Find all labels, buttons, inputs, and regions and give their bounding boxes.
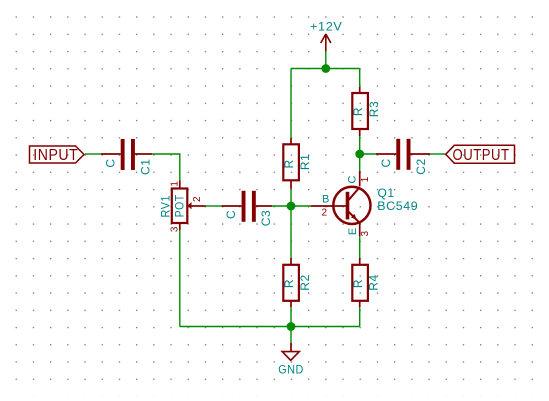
junction node +12V bus <box>321 64 330 73</box>
pin RV1 1 <box>179 181 181 189</box>
svg-text:R: R <box>282 279 296 288</box>
transistor Q1 <box>333 187 370 224</box>
svg-text:POT: POT <box>172 194 186 217</box>
svg-text:R: R <box>351 279 365 288</box>
global label INPUT <box>30 146 85 164</box>
svg-text:B: B <box>322 193 329 205</box>
pin C2 left <box>376 153 396 155</box>
svg-text:RV1: RV1 <box>159 195 173 218</box>
pin C1 right <box>135 153 152 155</box>
svg-text:C: C <box>104 158 118 167</box>
pin R3 top <box>359 87 361 93</box>
svg-text:C: C <box>379 158 393 167</box>
wire C2 to OUTPUT <box>430 153 446 155</box>
pin R1 top <box>290 138 292 144</box>
junction node bottom bus <box>287 322 296 331</box>
resistor R4 <box>352 265 368 301</box>
wire top bus <box>291 68 360 70</box>
svg-text:C1: C1 <box>138 158 152 175</box>
wire R3 bottom to C2 node <box>359 136 361 154</box>
ground symbol <box>282 352 299 361</box>
pin Q1 collector <box>359 171 361 187</box>
wire emitter to R4 <box>359 236 361 258</box>
wire R4 bottom <box>359 307 361 327</box>
resistor R1 <box>283 144 299 180</box>
svg-text:C3: C3 <box>259 210 273 227</box>
wire C1 to corner <box>152 154 180 181</box>
svg-text:3: 3 <box>360 230 371 236</box>
wire R2 bottom to bus <box>290 307 292 327</box>
wire top bus to R1 <box>290 69 292 139</box>
capacitor C1 <box>121 139 135 170</box>
wire C2 node to C2 <box>360 153 376 155</box>
svg-text:R1: R1 <box>298 154 312 171</box>
pin RV1 3 <box>179 223 181 230</box>
svg-text:INPUT: INPUT <box>33 147 78 164</box>
wire RV1 bottom leg <box>179 230 181 327</box>
svg-text:C: C <box>224 210 238 219</box>
svg-text:3: 3 <box>170 226 181 232</box>
resistor R2 <box>283 265 299 301</box>
pin R3 bottom <box>359 129 361 136</box>
svg-text:E: E <box>347 228 359 235</box>
pin R4 bottom <box>359 301 361 307</box>
resistor R3 <box>352 93 368 129</box>
svg-text:C2: C2 <box>414 158 428 175</box>
svg-text:GND: GND <box>278 362 304 376</box>
pin C3 right <box>256 205 272 207</box>
pin C3 left <box>222 205 242 207</box>
pin Q1 emitter <box>359 223 361 236</box>
pin C2 right <box>411 153 431 155</box>
wire GND drop <box>290 327 292 344</box>
capacitor C3 <box>242 191 256 222</box>
wire bottom bus <box>180 326 360 328</box>
wire C3 to junction <box>272 205 291 207</box>
wire junction to base <box>291 205 311 207</box>
pin R4 top <box>359 258 361 265</box>
svg-text:BC549: BC549 <box>377 199 418 213</box>
svg-text:R3: R3 <box>367 101 381 118</box>
wire top bus to R3 <box>359 69 361 88</box>
wire +12V stem <box>325 51 327 69</box>
svg-text:1: 1 <box>360 176 371 182</box>
svg-text:1: 1 <box>170 181 181 187</box>
svg-text:Q1: Q1 <box>378 186 395 200</box>
pin GND stub <box>290 343 292 352</box>
pin R2 bottom <box>290 301 292 307</box>
capacitor C2 <box>396 139 410 170</box>
svg-text:C: C <box>347 175 359 183</box>
pin C1 left <box>101 153 121 155</box>
junction node collector/R3/C2 <box>355 150 364 159</box>
svg-text:2: 2 <box>322 208 328 219</box>
svg-text:2: 2 <box>192 196 203 202</box>
wire RV1 wiper to C3 <box>206 205 222 207</box>
svg-text:+12V: +12V <box>310 20 343 34</box>
global label OUTPUT <box>446 145 515 164</box>
svg-text:OUTPUT: OUTPUT <box>453 147 510 164</box>
wire R1 bottom to R2 top <box>290 189 292 258</box>
svg-text:R4: R4 <box>367 274 381 291</box>
svg-text:R: R <box>282 159 296 168</box>
wire INPUT to C1 <box>85 153 101 155</box>
junction node base/C3/R1/R2 <box>287 202 296 211</box>
pin R1 bottom <box>290 180 292 189</box>
svg-text:R2: R2 <box>298 274 312 291</box>
pin R2 top <box>290 258 292 265</box>
power symbol +12V arrow <box>321 34 331 51</box>
potentiometer RV1 <box>172 189 192 224</box>
svg-text:R: R <box>351 107 365 116</box>
wire collector to C2 node <box>359 154 361 171</box>
pin RV1 2 wiper <box>191 205 206 207</box>
pin Q1 base <box>311 205 346 207</box>
